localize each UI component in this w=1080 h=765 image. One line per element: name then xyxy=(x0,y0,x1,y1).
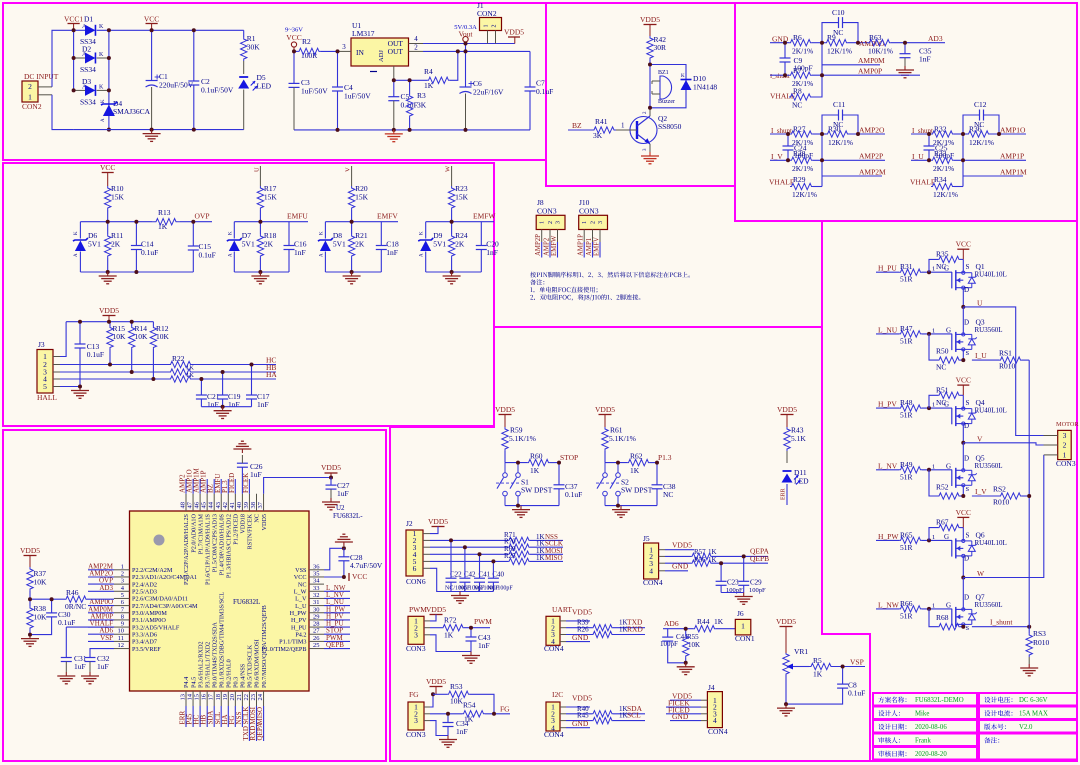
svg-text:C40: C40 xyxy=(492,571,504,579)
svg-text:1: 1 xyxy=(932,463,935,470)
svg-text:3K: 3K xyxy=(417,101,427,110)
svg-text:5V1: 5V1 xyxy=(433,240,446,249)
junction dots AMP1 xyxy=(927,132,931,136)
svg-text:R010: R010 xyxy=(993,498,1010,507)
svg-text:VHALF: VHALF xyxy=(769,178,794,187)
svg-text:1: 1 xyxy=(932,602,935,609)
svg-text:QEPB: QEPB xyxy=(326,641,344,649)
svg-text:5V1: 5V1 xyxy=(88,240,101,249)
svg-text:P4.5: P4.5 xyxy=(190,677,197,688)
wire buzzer loop xyxy=(650,65,686,108)
switch S1 SW DPST xyxy=(504,463,506,473)
svg-text:P0.5/TXD/SCLK: P0.5/TXD/SCLK xyxy=(247,644,254,688)
svg-text:1K: 1K xyxy=(714,617,724,626)
svg-text:SS34: SS34 xyxy=(80,65,96,74)
net label AMP0M + wire xyxy=(821,43,823,75)
svg-text:1K: 1K xyxy=(186,372,194,379)
svg-text:36: 36 xyxy=(313,563,320,570)
svg-text:I_shunt: I_shunt xyxy=(770,73,790,80)
svg-text:R54: R54 xyxy=(463,701,476,710)
svg-text:100pF: 100pF xyxy=(749,587,766,594)
svg-text:2: 2 xyxy=(414,44,418,52)
svg-text:1: 1 xyxy=(932,534,935,541)
svg-text:5V1: 5V1 xyxy=(242,240,255,249)
svg-text:41: 41 xyxy=(229,502,236,509)
svg-text:15: 15 xyxy=(194,694,201,701)
svg-text:2K/1%: 2K/1% xyxy=(792,164,813,173)
svg-text:GND: GND xyxy=(572,633,589,642)
svg-text:3: 3 xyxy=(598,221,604,224)
wire J3 pin5 to ground xyxy=(53,386,60,388)
svg-text:LED: LED xyxy=(257,82,272,91)
svg-text:W: W xyxy=(977,569,985,578)
svg-text:VDD5: VDD5 xyxy=(777,405,797,414)
svg-text:G: G xyxy=(944,533,949,541)
svg-text:2: 2 xyxy=(121,570,124,577)
ground (buzzer emitter) xyxy=(649,152,651,156)
capacitor C7 0.1uF xyxy=(529,51,531,87)
svg-text:1: 1 xyxy=(932,266,935,273)
wire FG pin1 to VDD5 node xyxy=(424,706,430,708)
svg-text:24: 24 xyxy=(257,693,264,700)
svg-text:SW DPST: SW DPST xyxy=(621,486,653,495)
section frame: connector/interface region xyxy=(390,327,822,427)
ground (HALL caps) xyxy=(222,407,224,411)
svg-text:S: S xyxy=(966,263,970,271)
svg-text:1nF: 1nF xyxy=(257,400,269,409)
notes text xyxy=(530,272,690,278)
svg-text:P3.0/AMP0M: P3.0/AMP0M xyxy=(132,610,167,617)
wire J2 pin4 row xyxy=(423,553,430,555)
wire D3 branch xyxy=(74,89,85,91)
svg-text:RU3560L: RU3560L xyxy=(975,326,1003,334)
U1 pin 4 (OUT) xyxy=(409,43,424,45)
junction dots divider xyxy=(28,597,32,601)
svg-text:D: D xyxy=(964,554,969,562)
svg-text:VDD5: VDD5 xyxy=(572,694,592,703)
ground (J3 pin5) xyxy=(79,387,81,391)
svg-text:MISO: MISO xyxy=(256,707,264,725)
svg-text:R010: R010 xyxy=(1033,638,1050,647)
svg-text:I_U: I_U xyxy=(975,351,987,360)
svg-text:P2.5/AD3: P2.5/AD3 xyxy=(132,588,157,595)
svg-text:42: 42 xyxy=(222,502,229,509)
svg-text:L_V: L_V xyxy=(295,596,307,603)
wire HA to label xyxy=(194,378,276,380)
svg-text:S: S xyxy=(966,625,970,632)
svg-text:NC: NC xyxy=(792,101,802,110)
svg-text:A: A xyxy=(319,253,324,257)
MCU top pins 48-37 xyxy=(185,494,187,511)
svg-text:3: 3 xyxy=(414,630,418,639)
svg-text:2: 2 xyxy=(492,25,498,28)
svg-text:1: 1 xyxy=(28,92,32,101)
svg-text:R44: R44 xyxy=(697,617,710,626)
svg-text:SS8050: SS8050 xyxy=(658,122,682,131)
wire HC to label xyxy=(194,364,276,366)
wire low-side source to I_V xyxy=(962,485,964,496)
svg-text:P1.2/FICED: P1.2/FICED xyxy=(233,513,240,544)
junction dots EMFW xyxy=(450,220,454,224)
svg-text:R60: R60 xyxy=(530,452,543,461)
svg-text:R13: R13 xyxy=(158,208,171,217)
wire phase node W xyxy=(962,556,964,578)
svg-text:G: G xyxy=(946,326,951,334)
svg-text:CON3: CON3 xyxy=(579,207,599,216)
svg-text:1K: 1K xyxy=(186,365,194,372)
U1 pin 2 (OUT) xyxy=(409,50,424,52)
svg-text:GND: GND xyxy=(572,719,589,728)
svg-text:W: W xyxy=(445,165,452,172)
svg-text:RS1: RS1 xyxy=(999,349,1012,358)
svg-text:R7: R7 xyxy=(793,66,802,75)
wire OVP node row xyxy=(80,221,152,223)
svg-text:10K: 10K xyxy=(34,613,48,622)
svg-text:R2: R2 xyxy=(302,37,311,46)
svg-text:RU40L10L: RU40L10L xyxy=(975,271,1007,279)
ground (regulator) xyxy=(393,130,395,134)
junction dots AMP2 xyxy=(786,132,790,136)
svg-text:1: 1 xyxy=(121,563,124,570)
svg-text:VDD5: VDD5 xyxy=(595,405,615,414)
svg-text:VDD5: VDD5 xyxy=(572,608,592,617)
svg-text:15K: 15K xyxy=(455,193,469,202)
wire HB to label xyxy=(194,371,276,373)
svg-text:NC: NC xyxy=(254,514,261,523)
svg-text:EMFW: EMFW xyxy=(473,212,496,221)
wire pin36 VSS to C28 xyxy=(324,548,344,570)
svg-text:5V1: 5V1 xyxy=(333,240,346,249)
svg-text:AMP1: AMP1 xyxy=(586,238,593,256)
svg-text:P0.7/MISO/QEPA/TIM2S/QEPB: P0.7/MISO/QEPA/TIM2S/QEPB xyxy=(261,605,268,688)
svg-text:P1.4/C0P/AD10/HAL0S: P1.4/C0P/AD10/HAL0S xyxy=(218,513,225,575)
ground (power rail left) xyxy=(151,130,153,134)
wire top rail VCC xyxy=(74,29,85,31)
svg-text:S: S xyxy=(966,350,970,357)
wire pin37 to VDD5 xyxy=(264,478,331,494)
net label AMP1M + wire xyxy=(962,134,964,160)
svg-text:R53: R53 xyxy=(450,682,463,691)
ground (R38) xyxy=(29,635,31,639)
svg-text:P3.1/AMP0O: P3.1/AMP0O xyxy=(132,617,166,624)
svg-text:CON3: CON3 xyxy=(406,730,426,739)
svg-text:1uF: 1uF xyxy=(97,662,109,671)
wire PWM pin3 to gnd xyxy=(424,634,430,636)
svg-text:Buzzer: Buzzer xyxy=(658,99,675,105)
svg-text:P0.6/RXDM/MOSI: P0.6/RXDM/MOSI xyxy=(254,639,261,688)
svg-text:GND: GND xyxy=(672,712,689,721)
svg-text:1nF: 1nF xyxy=(294,248,306,257)
svg-text:28: 28 xyxy=(313,621,320,628)
svg-text:0.1uF: 0.1uF xyxy=(536,87,553,96)
svg-text:NC: NC xyxy=(936,262,946,271)
svg-text:1uF/50V: 1uF/50V xyxy=(301,87,328,96)
wire J2 pin2 row xyxy=(423,539,430,541)
svg-text:P2.0/AD0/A1O: P2.0/AD0/A1O xyxy=(190,513,197,552)
svg-text:PWM: PWM xyxy=(474,617,492,626)
svg-text:30K: 30K xyxy=(247,43,261,52)
svg-text:P1.3/HBIAS/C1PS/AD12: P1.3/HBIAS/C1PS/AD12 xyxy=(226,514,233,578)
wire HALL VDD5 rail xyxy=(66,321,153,323)
MCU U3 FU6832L body xyxy=(130,511,310,691)
svg-text:AMP1O: AMP1O xyxy=(1000,126,1026,135)
svg-text:K: K xyxy=(99,85,104,91)
svg-text:I_V: I_V xyxy=(975,487,987,496)
svg-text:GND: GND xyxy=(672,562,689,571)
svg-text:J2: J2 xyxy=(406,519,413,528)
section frame: MCU block xyxy=(3,430,386,761)
svg-text:VDD18: VDD18 xyxy=(240,514,247,534)
svg-text:14: 14 xyxy=(187,693,194,700)
svg-text:P2.1/C2P/A2P/AD8/HAL2S: P2.1/C2P/A2P/AD8/HAL2S xyxy=(183,513,190,585)
svg-text:J3: J3 xyxy=(38,340,45,349)
svg-text:C29: C29 xyxy=(750,579,762,587)
svg-text:3: 3 xyxy=(121,578,124,585)
svg-text:C11: C11 xyxy=(833,100,845,109)
svg-text:P2.6/C3M/DA0/AD11: P2.6/C3M/DA0/AD11 xyxy=(132,596,188,603)
ground (RS3) xyxy=(1028,664,1030,668)
svg-text:27: 27 xyxy=(313,628,320,635)
svg-text:CON1: CON1 xyxy=(735,634,755,643)
svg-text:OVP: OVP xyxy=(195,212,210,221)
wire bottom rail EMFU xyxy=(234,271,289,273)
power port VCC (pin35) xyxy=(348,573,350,581)
wire I_shunt to bus xyxy=(972,626,1029,628)
ground (C35) xyxy=(904,66,906,70)
svg-text:P2.2/C2M/A2M: P2.2/C2M/A2M xyxy=(132,567,173,574)
svg-text:SCL: SCL xyxy=(627,711,641,720)
svg-text:EMFV: EMFV xyxy=(377,212,398,221)
MCU left pins 1-12 xyxy=(114,569,130,571)
svg-text:FICEK: FICEK xyxy=(242,473,250,493)
capacitor C6 22uF/16V xyxy=(465,51,467,86)
svg-text:NC: NC xyxy=(833,28,843,37)
svg-text:D: D xyxy=(964,286,969,294)
junction dots diode bridge xyxy=(72,28,76,32)
wire J2 pin1 to VDD5 xyxy=(423,533,430,535)
wire J2 pin3 row xyxy=(423,546,430,548)
svg-text:S: S xyxy=(966,399,970,407)
svg-text:I_U: I_U xyxy=(912,152,924,161)
svg-text:J4: J4 xyxy=(708,683,715,692)
svg-text:FU6832L: FU6832L xyxy=(233,598,260,606)
svg-text:VCC: VCC xyxy=(956,240,971,249)
capacitor C4 1uF/50V xyxy=(337,51,339,87)
svg-text:CON3: CON3 xyxy=(406,644,426,653)
svg-text:15K: 15K xyxy=(264,193,278,202)
wire HALL row HA xyxy=(53,378,60,380)
svg-text:1nF: 1nF xyxy=(478,641,490,650)
svg-text:R010: R010 xyxy=(999,362,1016,371)
svg-text:R33: R33 xyxy=(934,149,947,158)
svg-text:15K: 15K xyxy=(355,193,369,202)
svg-text:J6: J6 xyxy=(737,609,744,618)
svg-text:AMP2M: AMP2M xyxy=(859,168,886,177)
svg-text:AD6: AD6 xyxy=(664,619,679,628)
svg-text:1nF: 1nF xyxy=(386,248,398,257)
wire bottom rail EMFW xyxy=(426,271,482,273)
svg-text:FG: FG xyxy=(409,690,419,699)
svg-text:CON3: CON3 xyxy=(537,207,557,216)
svg-text:NC: NC xyxy=(936,398,946,407)
svg-text:H_PV: H_PV xyxy=(878,400,897,409)
svg-text:V: V xyxy=(977,434,983,443)
svg-text:UART: UART xyxy=(552,605,572,614)
wire VR1 bottom xyxy=(785,675,787,704)
wire S1 bottom rail xyxy=(505,505,559,507)
shunt bus vertical xyxy=(1028,360,1030,627)
svg-text:37: 37 xyxy=(257,501,264,508)
wire node row EMFW xyxy=(426,221,494,223)
wire caps bottom rail xyxy=(201,406,251,408)
wire J2 pin5 row xyxy=(423,560,430,562)
svg-text:46: 46 xyxy=(194,501,201,508)
junction dots OVP xyxy=(106,220,110,224)
svg-text:BZ1: BZ1 xyxy=(658,70,669,76)
svg-text:VSP: VSP xyxy=(100,634,113,642)
svg-text:VCC1: VCC1 xyxy=(64,15,83,24)
section frame: OVP/EMF + HALL block xyxy=(3,163,494,426)
svg-text:VSS: VSS xyxy=(295,567,307,574)
svg-text:AMP2P: AMP2P xyxy=(859,152,883,161)
svg-text:R72: R72 xyxy=(444,616,457,625)
svg-text:1uF/50V: 1uF/50V xyxy=(344,92,371,101)
svg-text:OUT: OUT xyxy=(388,47,404,56)
svg-text:35: 35 xyxy=(313,570,320,577)
svg-text:31: 31 xyxy=(313,599,320,606)
ground (EMFW) xyxy=(451,272,453,276)
svg-text:NC: NC xyxy=(974,120,984,129)
wire phase node U xyxy=(962,288,964,307)
svg-text:32: 32 xyxy=(313,592,320,599)
ground (S1) xyxy=(520,506,522,510)
svg-text:BZ: BZ xyxy=(572,121,582,130)
wire phase node V xyxy=(962,424,964,443)
svg-text:I_shunt: I_shunt xyxy=(990,618,1013,627)
wire ADJ node xyxy=(394,79,427,81)
svg-text:1K: 1K xyxy=(530,466,540,475)
ground above C26 xyxy=(233,441,251,453)
svg-text:C22: C22 xyxy=(450,571,462,579)
svg-text:RXD: RXD xyxy=(627,625,643,634)
svg-text:AMP0M: AMP0M xyxy=(858,56,885,65)
svg-text:C10: C10 xyxy=(832,8,845,17)
svg-text:QEPA: QEPA xyxy=(256,723,264,741)
svg-text:10K: 10K xyxy=(135,332,149,341)
junction dots VCC rail xyxy=(150,28,154,32)
svg-text:P2.4/AD2: P2.4/AD2 xyxy=(132,581,157,588)
svg-text:NC: NC xyxy=(833,120,843,129)
svg-text:ADJ: ADJ xyxy=(378,50,385,62)
svg-text:3: 3 xyxy=(1063,431,1067,440)
svg-text:CON3: CON3 xyxy=(1056,459,1076,468)
svg-text:29: 29 xyxy=(313,613,320,620)
svg-text:D1: D1 xyxy=(84,15,93,24)
wire low-side source to I_shunt xyxy=(962,624,964,626)
svg-text:P3.7/HAL1/TXD2: P3.7/HAL1/TXD2 xyxy=(204,642,211,688)
svg-text:9: 9 xyxy=(121,621,124,628)
svg-text:A: A xyxy=(101,118,106,122)
svg-text:VCC: VCC xyxy=(286,33,301,42)
svg-text:K: K xyxy=(319,231,324,235)
shunt resistor RS1 R010 xyxy=(972,359,999,361)
svg-text:40: 40 xyxy=(236,502,243,509)
svg-text:10K/1%: 10K/1% xyxy=(868,47,893,56)
capacitor C1 220uF/50V xyxy=(151,30,153,80)
U1 pin 1 (ADJ) xyxy=(393,66,395,80)
svg-text:P0.4/NSS: P0.4/NSS xyxy=(240,663,247,688)
svg-text:1: 1 xyxy=(621,122,625,130)
svg-text:MISO: MISO xyxy=(545,554,563,562)
svg-text:2: 2 xyxy=(591,221,597,224)
svg-text:H_PW: H_PW xyxy=(290,610,307,617)
svg-text:1: 1 xyxy=(932,327,935,334)
svg-text:U: U xyxy=(253,167,260,172)
svg-text:20: 20 xyxy=(229,694,236,701)
svg-text:1uF: 1uF xyxy=(337,489,349,498)
svg-text:V: V xyxy=(345,167,352,172)
svg-text:16: 16 xyxy=(201,693,208,700)
ground (EMFV) xyxy=(351,272,353,276)
svg-text:5: 5 xyxy=(43,382,47,391)
svg-text:5.1K/1%: 5.1K/1% xyxy=(609,434,636,443)
junction dots regulator xyxy=(292,49,296,53)
svg-text:P1.0/TIM2/QEPB: P1.0/TIM2/QEPB xyxy=(262,646,307,653)
wire phase V to motor xyxy=(963,443,1043,445)
svg-text:34: 34 xyxy=(313,578,320,585)
svg-text:VCC: VCC xyxy=(144,15,159,24)
svg-text:R3: R3 xyxy=(417,91,426,100)
svg-text:RU3560L: RU3560L xyxy=(975,601,1003,609)
svg-text:22: 22 xyxy=(243,694,250,701)
svg-text:0.1uF: 0.1uF xyxy=(848,689,865,698)
svg-text:2K/1%: 2K/1% xyxy=(792,47,813,56)
svg-text:H_PU: H_PU xyxy=(878,264,897,273)
svg-text:CON4: CON4 xyxy=(544,644,564,653)
svg-text:1nF: 1nF xyxy=(486,248,498,257)
wire J2 pin6 to gnd rail xyxy=(423,567,430,569)
wire D2 branch xyxy=(73,30,75,90)
svg-text:K: K xyxy=(228,231,233,235)
J10 pin stubs + labels xyxy=(583,230,585,243)
svg-text:EMFU: EMFU xyxy=(287,212,308,221)
svg-text:PWM: PWM xyxy=(409,605,427,614)
svg-text:1: 1 xyxy=(484,25,490,28)
svg-text:12: 12 xyxy=(118,642,125,649)
svg-text:0.1uF/50V: 0.1uF/50V xyxy=(201,86,234,95)
svg-text:3: 3 xyxy=(342,43,346,51)
svg-text:G: G xyxy=(946,462,951,470)
svg-text:K: K xyxy=(420,231,425,235)
wire J3 pin1 to VDD5 xyxy=(53,356,60,358)
svg-text:VDD5: VDD5 xyxy=(20,546,40,555)
svg-text:MOTOR: MOTOR xyxy=(1056,421,1079,428)
wire CON2 pin2 to bus xyxy=(38,86,52,88)
svg-text:ERR: ERR xyxy=(781,488,787,500)
svg-text:C42: C42 xyxy=(464,571,476,579)
svg-text:5.1K: 5.1K xyxy=(791,434,806,443)
svg-text:VR1: VR1 xyxy=(794,647,808,656)
svg-text:12K/1%: 12K/1% xyxy=(827,47,852,56)
svg-text:VDD5: VDD5 xyxy=(99,306,119,315)
svg-text:VDD5: VDD5 xyxy=(640,15,660,24)
capacitor C25 100pF xyxy=(928,134,930,146)
svg-text:FICED: FICED xyxy=(228,473,236,493)
wire QEP caps rail xyxy=(721,592,744,594)
svg-text:P1.5/C0M/C2PS/AD13: P1.5/C0M/C2PS/AD13 xyxy=(211,514,218,572)
svg-text:H_PW: H_PW xyxy=(878,532,899,541)
svg-text:C12: C12 xyxy=(974,100,987,109)
